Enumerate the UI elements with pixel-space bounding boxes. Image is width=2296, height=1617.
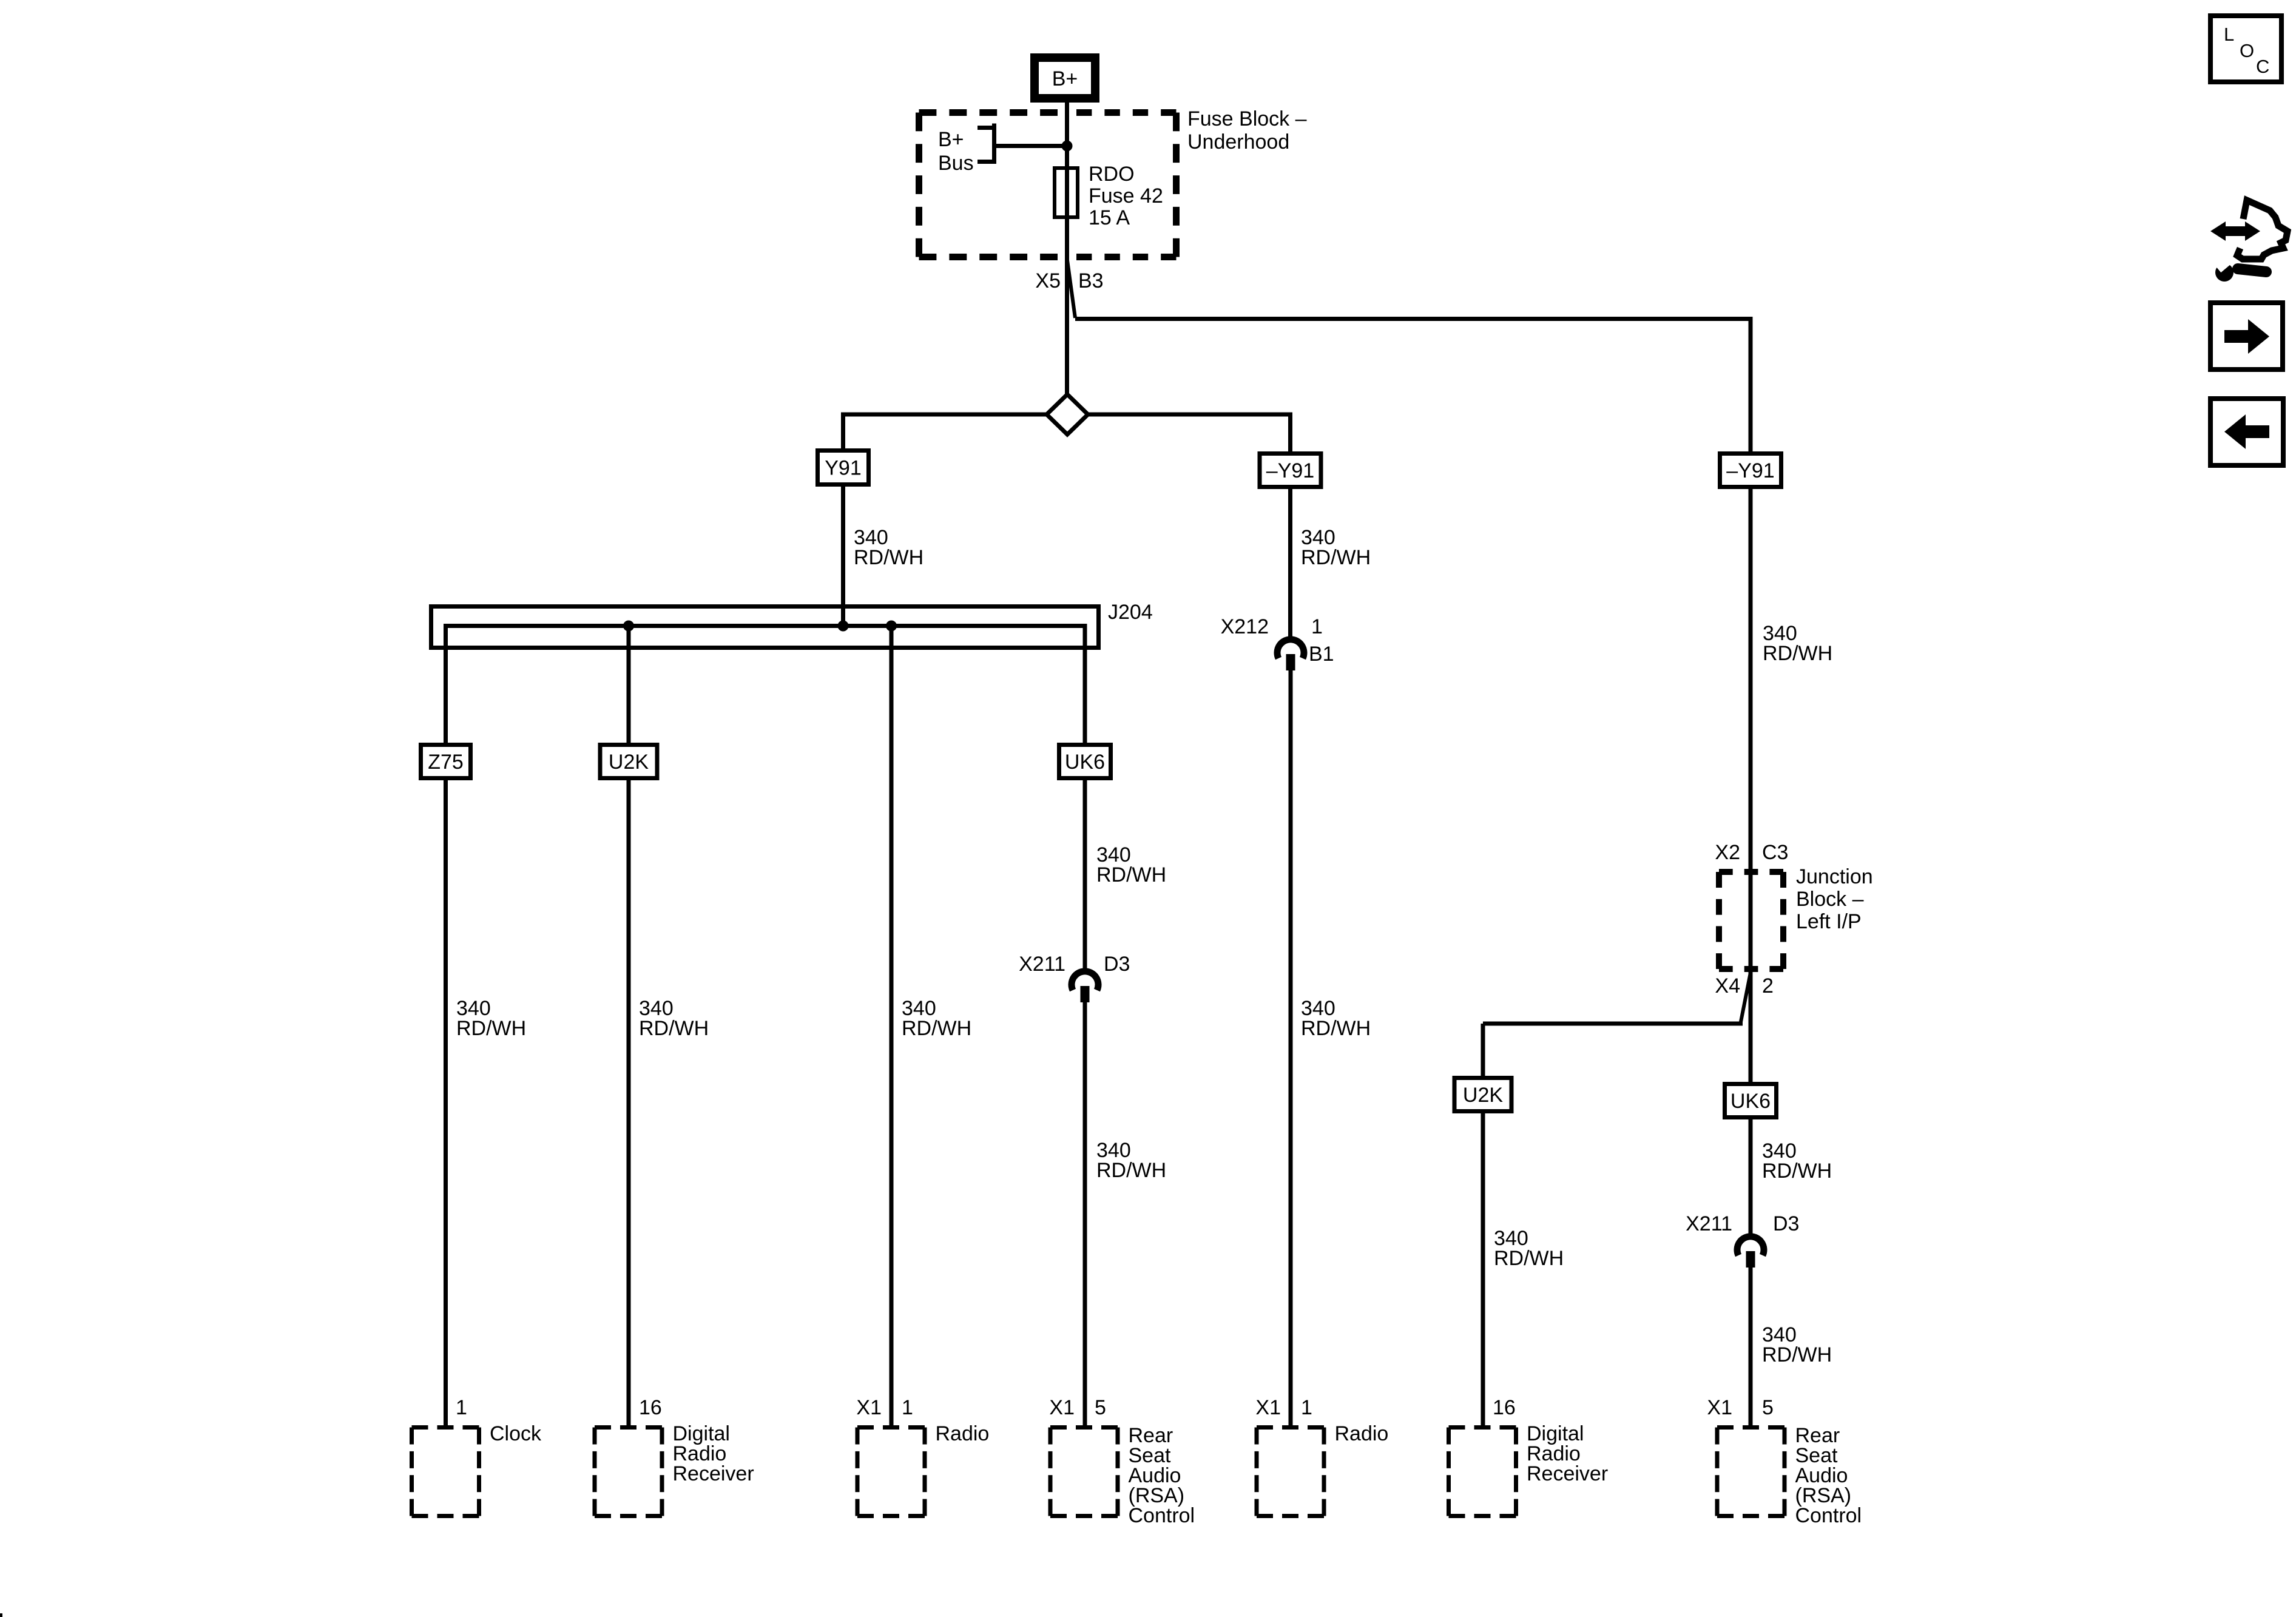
svg-text:X2: X2 — [1715, 841, 1740, 864]
svg-text:X1: X1 — [1255, 1396, 1281, 1419]
svg-text:5: 5 — [1095, 1396, 1106, 1419]
svg-text:–Y91: –Y91 — [1726, 459, 1774, 482]
svg-text:Z75: Z75 — [428, 751, 464, 774]
svg-text:1: 1 — [1311, 615, 1323, 638]
svg-text:X212: X212 — [1221, 615, 1269, 638]
svg-text:1: 1 — [456, 1396, 467, 1419]
svg-text:5: 5 — [1762, 1396, 1774, 1419]
svg-text:Y91: Y91 — [825, 457, 862, 480]
svg-text:L: L — [2224, 24, 2234, 45]
svg-text:O: O — [2240, 40, 2254, 61]
svg-text:16: 16 — [1493, 1396, 1516, 1419]
svg-text:Radio: Radio — [936, 1422, 990, 1445]
svg-text:D3: D3 — [1773, 1212, 1799, 1235]
svg-text:2: 2 — [1762, 974, 1774, 998]
svg-text:JunctionBlock –Left I/P: JunctionBlock –Left I/P — [1796, 865, 1873, 933]
svg-text:X5: X5 — [1035, 269, 1061, 292]
svg-text:U2K: U2K — [1463, 1084, 1503, 1107]
svg-text:X1: X1 — [856, 1396, 882, 1419]
svg-text:UK6: UK6 — [1065, 751, 1105, 774]
svg-text:X211: X211 — [1019, 953, 1065, 976]
svg-text:B1: B1 — [1309, 643, 1334, 666]
svg-text:16: 16 — [639, 1396, 662, 1419]
svg-text:B+: B+ — [1052, 67, 1078, 90]
svg-text:UK6: UK6 — [1730, 1090, 1771, 1113]
svg-text:X4: X4 — [1715, 974, 1740, 998]
svg-text:C3: C3 — [1762, 841, 1788, 864]
svg-text:B3: B3 — [1078, 269, 1104, 292]
svg-text:U2K: U2K — [609, 751, 649, 774]
svg-text:–Y91: –Y91 — [1266, 459, 1314, 482]
svg-text:1: 1 — [1301, 1396, 1312, 1419]
svg-text:X1: X1 — [1049, 1396, 1075, 1419]
svg-text:Fuse Block –Underhood: Fuse Block –Underhood — [1187, 107, 1307, 154]
svg-text:J204: J204 — [1108, 601, 1153, 624]
svg-text:D3: D3 — [1104, 953, 1130, 976]
svg-text:X1: X1 — [1707, 1396, 1732, 1419]
svg-text:Radio: Radio — [1335, 1422, 1389, 1445]
svg-text:C: C — [2256, 56, 2269, 77]
svg-text:X211: X211 — [1686, 1212, 1732, 1235]
svg-text:Clock: Clock — [490, 1422, 542, 1445]
svg-text:1: 1 — [902, 1396, 913, 1419]
